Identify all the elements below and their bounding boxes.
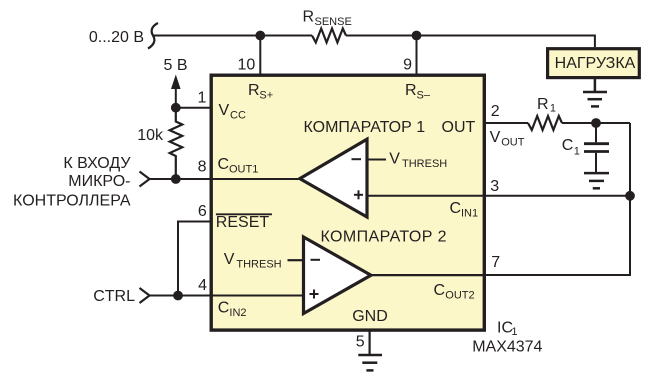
svg-text:C: C <box>450 200 462 217</box>
svg-text:RESET: RESET <box>216 214 270 231</box>
svg-text:2: 2 <box>491 103 500 120</box>
wire: comp2 minus stub <box>288 259 304 261</box>
wire: right vertical feedback to pin 7 <box>371 123 630 275</box>
minus sign comparator 1 <box>352 158 362 160</box>
ground under C1 <box>584 173 609 188</box>
wire: pin 1 <box>176 107 211 109</box>
junction dot CIN1 node <box>625 191 635 201</box>
svg-text:S+: S+ <box>259 89 273 101</box>
wire: R1 to right corner <box>562 122 630 124</box>
load box НАГРУЗКА <box>548 49 640 78</box>
svg-text:R: R <box>405 82 417 99</box>
wire: COUT1 to pin 8 and comparator 1 output <box>150 178 300 180</box>
wire: comp1 minus stub <box>367 159 386 161</box>
wire: comp1 plus to pin 3 and right node <box>367 195 630 197</box>
svg-text:C: C <box>218 156 230 173</box>
svg-text:V: V <box>224 251 235 268</box>
svg-text:8: 8 <box>198 158 207 175</box>
svg-text:V: V <box>389 151 400 168</box>
svg-text:9: 9 <box>403 57 412 74</box>
svg-text:THRESH: THRESH <box>402 158 447 170</box>
ground under load <box>583 79 607 106</box>
plus sign comparator 2 <box>310 290 319 299</box>
svg-text:7: 7 <box>491 254 500 271</box>
svg-text:IN1: IN1 <box>461 208 478 220</box>
svg-text:КОНТРОЛЛЕРА: КОНТРОЛЛЕРА <box>13 192 131 209</box>
svg-text:MAX4374: MAX4374 <box>472 339 542 356</box>
junction dot VCC node <box>171 103 181 113</box>
svg-text:R: R <box>303 9 315 26</box>
svg-text:CC: CC <box>230 110 246 122</box>
svg-text:SENSE: SENSE <box>315 16 352 28</box>
resistor RSENSE <box>312 29 346 43</box>
junction dot R1-C1 node <box>591 118 601 128</box>
svg-text:R: R <box>537 96 549 113</box>
junction dot at RS- tap <box>412 31 422 41</box>
svg-text:OUT2: OUT2 <box>445 289 474 301</box>
svg-text:НАГРУЗКА: НАГРУЗКА <box>555 55 636 72</box>
svg-text:6: 6 <box>198 203 207 220</box>
svg-text:THRESH: THRESH <box>236 258 281 270</box>
svg-text:C: C <box>218 300 230 317</box>
svg-text:5 В: 5 В <box>164 57 188 74</box>
wire: comp2 output to pin 7 (inside) <box>371 274 486 276</box>
svg-text:OUT: OUT <box>501 136 525 148</box>
capacitor C1 <box>584 123 609 172</box>
svg-text:МИКРО-: МИКРО- <box>68 173 130 190</box>
op-amp comparator 1 <box>300 139 367 217</box>
junction dot CTRL node <box>173 291 183 301</box>
svg-text:S–: S– <box>417 89 431 101</box>
svg-text:OUT: OUT <box>442 119 476 136</box>
svg-text:10k: 10k <box>137 127 164 144</box>
IC body U1 MAX4374 <box>211 75 484 330</box>
svg-text:0...20 В: 0...20 В <box>89 29 144 46</box>
svg-text:1: 1 <box>197 89 206 106</box>
resistor 10k <box>170 109 183 180</box>
resistor R1 <box>528 116 562 130</box>
wire: 0-20V top supply rail to load <box>153 36 595 48</box>
junction dot at RS+ tap <box>255 31 265 41</box>
svg-text:1: 1 <box>550 103 556 115</box>
CTRL connector chevron <box>140 288 150 303</box>
svg-text:R: R <box>248 82 260 99</box>
svg-text:К ВХОДУ: К ВХОДУ <box>63 155 131 172</box>
input connector chevron to MCU <box>140 172 150 187</box>
svg-text:V: V <box>490 129 501 146</box>
wire: pin 10 stub <box>259 36 261 76</box>
svg-text:GND: GND <box>352 308 388 325</box>
svg-text:5: 5 <box>356 333 365 350</box>
wire: RESET pin 6 bend <box>178 222 211 296</box>
wire: pin 5 stub <box>369 329 371 354</box>
wire: CTRL to comp2 plus <box>150 295 304 297</box>
svg-text:10: 10 <box>238 57 256 74</box>
ground at pin 5 <box>358 355 382 370</box>
svg-text:C: C <box>434 282 446 299</box>
svg-text:4: 4 <box>198 277 207 294</box>
svg-text:КОМПАРАТОР 2: КОМПАРАТОР 2 <box>321 228 447 245</box>
svg-text:C: C <box>562 137 574 154</box>
break symbol at 0...20V source <box>148 23 158 49</box>
svg-text:V: V <box>219 102 230 119</box>
minus sign comparator 2 <box>311 259 321 261</box>
svg-text:3: 3 <box>490 178 499 195</box>
op-amp comparator 2 <box>304 237 372 314</box>
junction dot COUT1 node <box>171 174 181 184</box>
svg-text:IN2: IN2 <box>229 307 246 319</box>
plus sign comparator 1 <box>354 190 363 199</box>
svg-text:1: 1 <box>511 326 517 338</box>
wire: pin 2 to R1 <box>484 122 528 124</box>
svg-text:CTRL: CTRL <box>93 288 135 305</box>
wire: pin 9 stub <box>416 36 418 76</box>
svg-text:OUT1: OUT1 <box>229 164 258 176</box>
5V arrow <box>171 75 181 90</box>
svg-text:1: 1 <box>574 146 580 158</box>
svg-text:КОМПАРАТОР 1: КОМПАРАТОР 1 <box>304 119 426 136</box>
